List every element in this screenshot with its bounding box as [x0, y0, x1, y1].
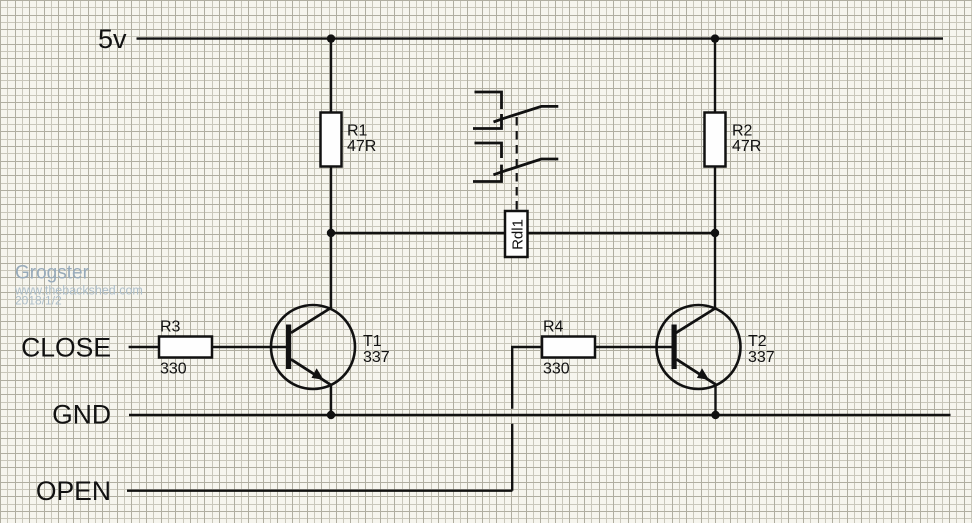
- svg-text:R1: R1: [347, 123, 368, 140]
- junction 5v rail / R1: [327, 34, 335, 42]
- value 47R (R1): [347, 138, 376, 155]
- svg-text:330: 330: [160, 361, 187, 378]
- svg-text:Rdl1: Rdl1: [509, 219, 526, 250]
- dashed actuation link contacts to coil: [516, 117, 518, 211]
- junction 5v rail / R2: [711, 34, 719, 42]
- value 337 (T2): [748, 349, 775, 366]
- label R2: [732, 123, 753, 140]
- watermark Grogster www.thebackshed.com 2018/1/2: [14, 263, 143, 308]
- label R3: [160, 319, 181, 336]
- relay contact K1a (changeover): [473, 92, 558, 129]
- resistor R2: [705, 113, 726, 167]
- svg-text:5v: 5v: [98, 24, 127, 54]
- label R4: [543, 319, 564, 336]
- wire GND rail: [129, 414, 951, 416]
- svg-text:330: 330: [543, 361, 570, 378]
- net label CLOSE: [21, 333, 111, 363]
- svg-text:R3: R3: [160, 319, 181, 336]
- junction coil node / R1 branch: [327, 229, 335, 237]
- relay contact K1b (changeover): [473, 143, 558, 182]
- wire T2 emitter to GND rail: [714, 384, 716, 415]
- svg-text:47R: 47R: [732, 138, 761, 155]
- value 337 (T1): [363, 349, 390, 366]
- wire R2 pin 2 to coil node: [714, 167, 716, 234]
- wire CLOSE to R3 pin 1: [129, 346, 159, 348]
- svg-text:337: 337: [363, 349, 390, 366]
- junction GND rail / T2 emitter: [711, 411, 719, 419]
- svg-text:2018/1/2: 2018/1/2: [15, 294, 62, 308]
- junction GND rail / T1 emitter: [327, 411, 335, 419]
- svg-text:GND: GND: [52, 400, 111, 430]
- wire R3 pin 2 to T1 base: [212, 346, 286, 348]
- wire 5v rail: [137, 37, 944, 39]
- wire 5v rail to R1 pin 1: [330, 39, 332, 113]
- svg-text:CLOSE: CLOSE: [21, 333, 111, 363]
- svg-text:337: 337: [748, 349, 775, 366]
- label T1: [363, 333, 382, 350]
- wire T1 emitter to GND rail: [330, 384, 332, 415]
- resistor R4: [542, 337, 595, 358]
- resistor R3: [159, 337, 212, 358]
- svg-text:R2: R2: [732, 123, 753, 140]
- wire 5v rail to R2 pin 1: [714, 39, 716, 113]
- resistor R1: [321, 113, 342, 167]
- svg-text:47R: 47R: [347, 138, 376, 155]
- relay coil Rdl1: [505, 211, 528, 257]
- value 330 (R4): [543, 361, 570, 378]
- wire R1 pin 2 to coil node: [330, 167, 332, 234]
- value 47R (R2): [732, 138, 761, 155]
- transistor T2 (NPN): [657, 305, 741, 389]
- net label 5v: [98, 24, 127, 54]
- wire OPEN riser (crosses GND rail with gap): [512, 347, 542, 491]
- label R1: [347, 123, 368, 140]
- label T2: [748, 333, 767, 350]
- svg-text:R4: R4: [543, 319, 564, 336]
- net label OPEN: [36, 476, 111, 506]
- svg-text:T1: T1: [363, 333, 382, 350]
- svg-text:OPEN: OPEN: [36, 476, 111, 506]
- wire R4 pin 2 to T2 base: [595, 346, 672, 348]
- svg-text:T2: T2: [748, 333, 767, 350]
- net label GND: [52, 400, 111, 430]
- wire OPEN horizontal: [127, 490, 512, 492]
- wire coil node rail: [331, 232, 715, 234]
- value 330 (R3): [160, 361, 187, 378]
- wire coil node to T2 collector: [676, 233, 717, 333]
- wire coil node to T1 collector: [291, 233, 332, 333]
- label Rdl1 (rotated): [509, 219, 526, 250]
- transistor T1 (NPN): [271, 305, 355, 389]
- svg-text:Grogster: Grogster: [15, 263, 90, 284]
- junction coil node / R2 branch: [711, 229, 719, 237]
